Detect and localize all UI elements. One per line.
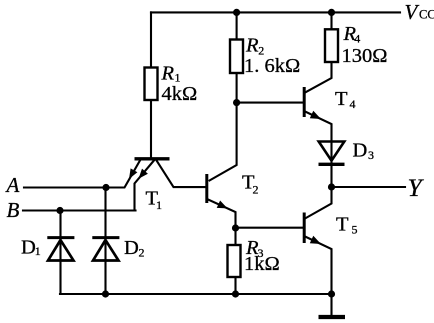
svg-text:R: R	[161, 63, 175, 85]
svg-text:CC: CC	[419, 8, 434, 22]
svg-text:4: 4	[354, 32, 360, 46]
svg-text:2: 2	[253, 183, 259, 197]
svg-text:T: T	[336, 214, 349, 236]
svg-text:D: D	[353, 140, 368, 162]
svg-text:D: D	[124, 237, 139, 259]
svg-text:4: 4	[350, 97, 356, 111]
svg-text:3: 3	[368, 148, 374, 162]
svg-text:5: 5	[352, 223, 358, 237]
svg-text:T: T	[335, 88, 348, 110]
svg-text:130Ω: 130Ω	[342, 45, 388, 67]
svg-text:4kΩ: 4kΩ	[162, 83, 198, 105]
svg-text:D: D	[21, 236, 36, 258]
svg-text:R: R	[245, 35, 259, 57]
svg-text:1. 6kΩ: 1. 6kΩ	[244, 55, 300, 77]
svg-text:V: V	[405, 0, 420, 24]
svg-text:1kΩ: 1kΩ	[244, 253, 280, 275]
svg-text:Y: Y	[408, 173, 425, 202]
svg-text:A: A	[5, 173, 20, 197]
svg-text:1: 1	[35, 244, 41, 258]
svg-text:2: 2	[139, 246, 145, 260]
svg-text:B: B	[7, 198, 20, 222]
svg-text:1: 1	[156, 198, 162, 212]
